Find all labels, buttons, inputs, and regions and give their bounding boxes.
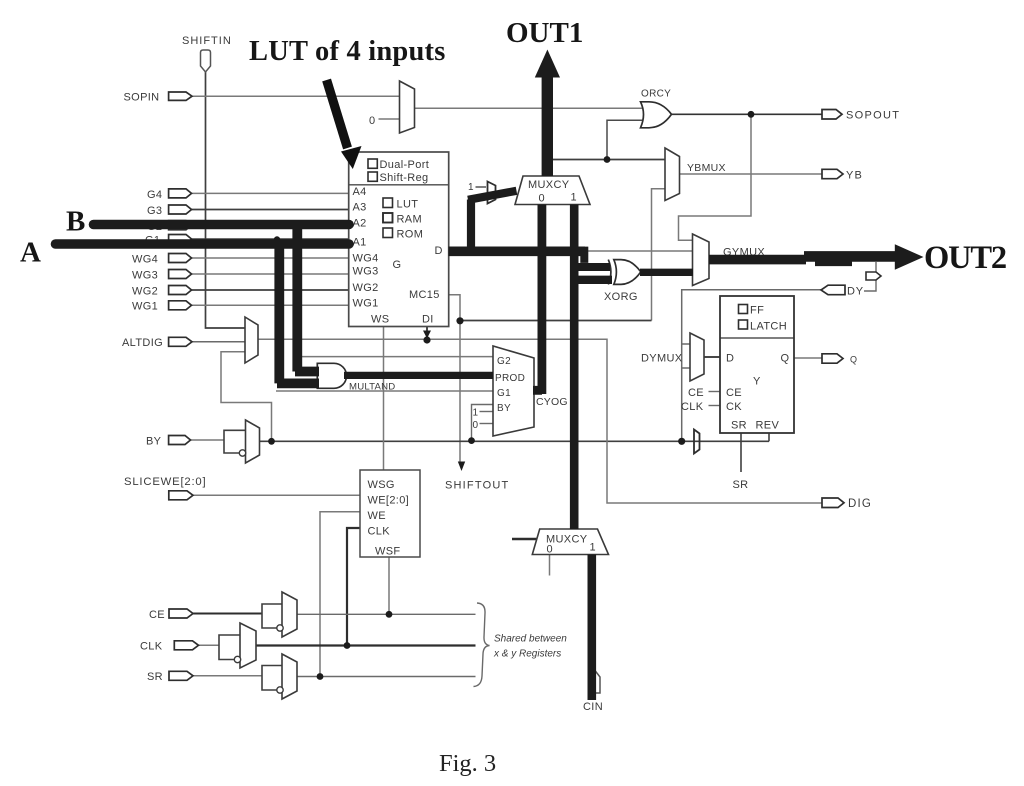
pin Q — [822, 354, 857, 365]
svg-text:A2: A2 — [353, 218, 367, 230]
wire MC15 output down to SHIFTOUT — [449, 295, 461, 464]
wire WSG WE input from SR net — [320, 512, 360, 677]
checkbox Shift-Reg — [368, 172, 377, 181]
mux BY with inverter bubble — [239, 420, 259, 463]
pin YB — [822, 169, 863, 181]
pin DIG — [822, 498, 872, 510]
svg-text:Shift-Reg: Shift-Reg — [380, 172, 429, 184]
svg-text:G1: G1 — [497, 388, 511, 399]
wire BY inverter loop box — [224, 430, 246, 453]
svg-text:CYOG: CYOG — [536, 396, 568, 408]
svg-text:SR: SR — [733, 479, 749, 491]
wire SR mux output — [297, 676, 476, 678]
node WSF/CE junction — [386, 611, 393, 618]
svg-text:CE: CE — [149, 609, 165, 621]
wire ALTDIG mux output to DIG pin — [258, 339, 822, 503]
wire CYOG constant 1 stub — [480, 411, 494, 413]
gate ORCY (OR) — [641, 89, 672, 128]
gate MULTAND (AND) — [317, 363, 395, 392]
annotation arrow LUT-of-4-inputs — [327, 80, 348, 148]
wire ALTDIG pin to mux — [192, 341, 245, 343]
wire WG3 pin to LUT — [192, 273, 350, 275]
wire ORCY lower input from node — [607, 120, 647, 159]
pin SOPOUT — [822, 110, 900, 122]
wire lower MUXCY select stub — [512, 538, 539, 540]
wire G1 pin to LUT A1 (under A path) — [192, 238, 350, 240]
node DI junction — [423, 336, 430, 343]
pin G1 — [145, 235, 192, 247]
checkbox LATCH — [739, 320, 748, 329]
svg-text:A1: A1 — [353, 237, 367, 249]
wire SHIFTIN vertical into ALTDIG mux — [206, 72, 246, 328]
wire WG4 pin to LUT — [192, 257, 350, 259]
node BY/DYMUX junction — [678, 438, 685, 445]
svg-text:G3: G3 — [147, 205, 162, 217]
svg-text:1: 1 — [571, 192, 577, 204]
svg-text:WSG: WSG — [368, 479, 395, 491]
svg-text:DYMUX: DYMUX — [641, 353, 683, 365]
svg-text:SHIFTIN: SHIFTIN — [182, 35, 232, 47]
svg-text:SR: SR — [731, 420, 747, 432]
svg-text:OUT2: OUT2 — [924, 240, 1006, 276]
wire MC15 node to DIG riser — [460, 320, 652, 322]
thick path select elbow to MUXCY left — [468, 191, 517, 251]
FF/LATCH register box — [720, 296, 794, 433]
mux YBMUX — [665, 148, 726, 201]
wire CE pin to mux — [193, 613, 262, 615]
svg-text:Shared between: Shared between — [494, 634, 567, 645]
checkbox FF — [739, 305, 748, 314]
pin CE — [149, 609, 193, 621]
mux SR with inverter bubble — [277, 654, 297, 699]
pin Y (partially hidden by OUT2) — [866, 272, 881, 280]
wire SR inverter loop box — [262, 666, 282, 691]
checkbox RAM — [383, 213, 393, 223]
wire DYMUX output to FF D — [704, 356, 720, 358]
thick path carry vertical MUXCY1 to MUXCY lower — [570, 205, 579, 530]
svg-text:XORG: XORG — [604, 291, 638, 303]
thick path MULTAND PROD output to CYOG — [344, 372, 493, 379]
pin WG4 — [132, 254, 192, 266]
wire WG1 pin to LUT — [192, 304, 350, 306]
svg-text:BY: BY — [497, 403, 511, 414]
mux ALTDIG — [245, 317, 258, 363]
svg-text:MC15: MC15 — [409, 289, 440, 301]
wire YBMUX lower input from DIG node — [652, 189, 666, 321]
svg-text:G2: G2 — [497, 356, 511, 367]
pin CIN (under thick line) — [583, 671, 603, 714]
wire FF SR stub down — [740, 433, 742, 472]
svg-text:YBMUX: YBMUX — [687, 162, 726, 174]
svg-text:WG3: WG3 — [353, 266, 379, 278]
svg-text:RAM: RAM — [397, 214, 423, 226]
wire G3 pin to LUT A3 — [192, 209, 350, 211]
pin WG1 — [132, 301, 192, 313]
mux DYMUX — [641, 333, 704, 381]
thick path B input — [94, 220, 350, 230]
thick path A input — [56, 239, 350, 249]
svg-text:LUT of 4 inputs: LUT of 4 inputs — [249, 36, 446, 67]
svg-text:WG1: WG1 — [132, 301, 158, 313]
node MC15/DIG junction — [456, 317, 463, 324]
svg-text:D: D — [435, 245, 443, 257]
arrowhead OUT2 — [895, 244, 924, 270]
svg-text:SOPIN: SOPIN — [124, 92, 160, 104]
svg-text:Fig. 3: Fig. 3 — [439, 750, 496, 777]
wire lower MUXCY 0 input stub — [549, 555, 551, 576]
wire G4 pin to LUT A4 — [192, 192, 350, 194]
wire WG2 pin to LUT — [192, 289, 350, 291]
WSG box — [360, 470, 420, 558]
pin G3 — [147, 205, 192, 217]
wire CLK mux output — [256, 644, 476, 646]
wire G1 feed to CYOG — [276, 390, 493, 392]
svg-text:DI: DI — [422, 314, 434, 326]
svg-text:WG3: WG3 — [132, 270, 158, 282]
node CYOG BY-branch junction — [468, 437, 475, 444]
wire BY pin into inverter loop — [191, 439, 225, 441]
svg-text:CE: CE — [726, 387, 742, 399]
pin WG2 — [132, 286, 192, 298]
pin WG3 — [132, 270, 192, 282]
pin DY (points left) — [821, 285, 864, 297]
pin CLK — [140, 641, 199, 653]
thick path XORG lower input from carry line — [571, 276, 612, 284]
wire DY pin to DYMUX inputs — [682, 290, 822, 442]
label SHIFTOUT with arrowhead — [445, 462, 509, 492]
pin G2 — [147, 221, 192, 233]
svg-text:DIG: DIG — [848, 498, 872, 510]
thick path OUT2 scan fragment — [815, 261, 852, 266]
svg-text:SLICEWE[2:0]: SLICEWE[2:0] — [124, 476, 206, 488]
node OUT1/ORCY junction — [604, 156, 611, 163]
wire SOPIN to SOP mux — [192, 95, 400, 97]
svg-text:ROM: ROM — [397, 229, 424, 241]
mux GYMUX — [693, 234, 766, 286]
svg-text:Q: Q — [850, 355, 857, 365]
mux CE with inverter bubble — [277, 592, 297, 637]
svg-text:A3: A3 — [353, 202, 367, 214]
wire ORCY output to SOPOUT — [672, 113, 823, 115]
wire G2 pin to LUT A2 (under B path) — [192, 224, 350, 226]
arrowhead LUT DI — [423, 331, 431, 339]
svg-text:0: 0 — [473, 420, 479, 431]
wire SLICEWE to WSG — [193, 494, 360, 496]
svg-text:x & y Registers: x & y Registers — [493, 649, 561, 660]
svg-text:B: B — [66, 206, 85, 238]
svg-text:G4: G4 — [147, 189, 162, 201]
thick path OUT2 from GYMUX — [709, 255, 806, 265]
wire G2 feed to CYOG — [297, 356, 493, 358]
svg-text:CK: CK — [726, 401, 742, 413]
svg-text:A4: A4 — [353, 186, 367, 198]
svg-text:D: D — [726, 353, 734, 365]
mux-slot 1-select near MUXCY — [468, 182, 496, 204]
wire CE inverter loop box — [262, 604, 282, 628]
svg-text:ALTDIG: ALTDIG — [122, 337, 163, 349]
thick path A branch down to MULTAND — [277, 240, 319, 383]
svg-text:MULTAND: MULTAND — [349, 382, 395, 393]
svg-text:WG1: WG1 — [353, 298, 379, 310]
thick path LUT D output across — [449, 247, 586, 257]
gate XORG (XOR) — [604, 260, 641, 303]
checkbox LUT — [383, 198, 393, 208]
svg-text:Q: Q — [781, 353, 790, 365]
wire CE mux output — [297, 613, 476, 615]
wire FF REV from BY net — [768, 433, 770, 441]
svg-text:WG4: WG4 — [353, 253, 379, 265]
svg-text:BY: BY — [146, 436, 162, 448]
pin SOPIN — [124, 92, 193, 104]
svg-text:WG2: WG2 — [132, 286, 158, 298]
thick path B branch down to MULTAND — [295, 221, 319, 372]
svg-text:Y: Y — [753, 376, 761, 388]
node WE/SR junction — [317, 673, 324, 680]
thick path CIN up into MUXCY lower 1 — [587, 555, 596, 701]
wire FF Q output to Q pin — [794, 357, 822, 359]
svg-text:G: G — [393, 259, 402, 271]
svg-text:WS: WS — [371, 314, 389, 326]
svg-text:CIN: CIN — [583, 701, 603, 713]
svg-text:WG2: WG2 — [353, 282, 379, 294]
wire CYOG constant 0 stub — [480, 423, 494, 425]
arrowhead OUT1 — [535, 50, 560, 78]
svg-text:LUT: LUT — [397, 199, 419, 211]
wire BY branch to CYOG BY input — [472, 405, 494, 442]
wire FF CK stub — [709, 405, 721, 407]
svg-text:CLK: CLK — [681, 401, 704, 413]
svg-text:ORCY: ORCY — [641, 89, 671, 100]
wire YBMUX output to YB pin — [680, 173, 823, 175]
svg-text:0: 0 — [539, 193, 545, 205]
wire LUT DI stub — [426, 327, 428, 337]
wire BY node up to ALTDIG mux lower input — [221, 352, 272, 442]
svg-text:SR: SR — [147, 671, 163, 683]
thick path step down to XORG upper input — [578, 247, 610, 267]
node hidden G1 junction above A path — [274, 236, 280, 242]
node BY output junction — [268, 438, 275, 445]
svg-text:FF: FF — [750, 305, 764, 317]
node CLK junction — [344, 642, 351, 649]
svg-text:CLK: CLK — [140, 641, 163, 653]
wire WSG CLK input from CLK net — [347, 528, 360, 646]
wire constant 0 stub into SOP mux — [379, 118, 400, 120]
svg-text:SOPOUT: SOPOUT — [846, 110, 900, 122]
wire Y pin elbow to DY label — [864, 262, 876, 291]
svg-text:1: 1 — [590, 542, 596, 554]
svg-text:WE: WE — [368, 510, 386, 522]
mux SOP (SOPIN/0) — [369, 81, 415, 133]
svg-text:WG4: WG4 — [132, 254, 158, 266]
MUXCY lower — [532, 529, 608, 556]
wire CLK pin to mux — [199, 644, 220, 646]
svg-text:WSF: WSF — [375, 546, 401, 558]
wire SOP mux output to ORCY input — [415, 107, 648, 109]
svg-text:REV: REV — [756, 420, 780, 432]
wire OUT1 node to YBMUX upper input — [552, 159, 666, 161]
svg-text:A: A — [20, 237, 41, 269]
svg-text:1: 1 — [473, 408, 479, 419]
svg-text:WE[2:0]: WE[2:0] — [368, 495, 410, 507]
svg-text:0: 0 — [369, 115, 375, 127]
thick path CYOG output up to MUXCY 0 — [533, 205, 542, 395]
pin SR — [147, 671, 193, 683]
svg-text:DY: DY — [847, 286, 864, 298]
svg-text:CE: CE — [688, 387, 704, 399]
svg-text:LATCH: LATCH — [750, 321, 787, 333]
svg-text:YB: YB — [846, 170, 863, 182]
checkbox ROM — [383, 228, 393, 238]
pin BY — [146, 436, 191, 448]
svg-text:MUXCY: MUXCY — [528, 179, 570, 191]
checkbox Dual-Port — [368, 159, 377, 168]
svg-text:1: 1 — [468, 182, 474, 193]
pin ALTDIG — [122, 337, 192, 349]
svg-text:Dual-Port: Dual-Port — [380, 159, 430, 171]
node SOPOUT junction — [748, 111, 755, 118]
svg-text:SHIFTOUT: SHIFTOUT — [445, 480, 509, 492]
MUXCY upper — [515, 176, 590, 205]
brace shared-registers — [474, 603, 568, 687]
pin SHIFTIN — [182, 35, 232, 72]
wire FF CE stub — [709, 391, 721, 393]
wire WSG WSF stub to CE net — [388, 557, 390, 614]
LUT G box — [349, 152, 449, 327]
wire SR pin to mux — [193, 675, 262, 677]
wire LUT D output to GYMUX input — [449, 250, 694, 252]
mux-slot on BY/REV line — [694, 430, 700, 454]
pin SLICEWE[2:0] — [124, 476, 206, 500]
mux CLK with inverter bubble — [234, 623, 256, 668]
svg-text:OUT1: OUT1 — [506, 17, 583, 49]
wire SOPOUT node down to GYMUX input — [679, 114, 752, 240]
thick path XORG output to GYMUX — [640, 269, 693, 276]
svg-text:0: 0 — [547, 544, 553, 556]
pin G4 — [147, 189, 192, 201]
svg-text:CLK: CLK — [368, 526, 391, 538]
mux CYOG — [473, 346, 568, 436]
wire CLK inverter loop box — [219, 635, 240, 660]
svg-text:PROD: PROD — [495, 373, 525, 384]
wire LUT WS down to WSG — [383, 327, 385, 470]
thick path OUT1 shaft — [542, 75, 553, 176]
wire BY net — [260, 440, 770, 442]
